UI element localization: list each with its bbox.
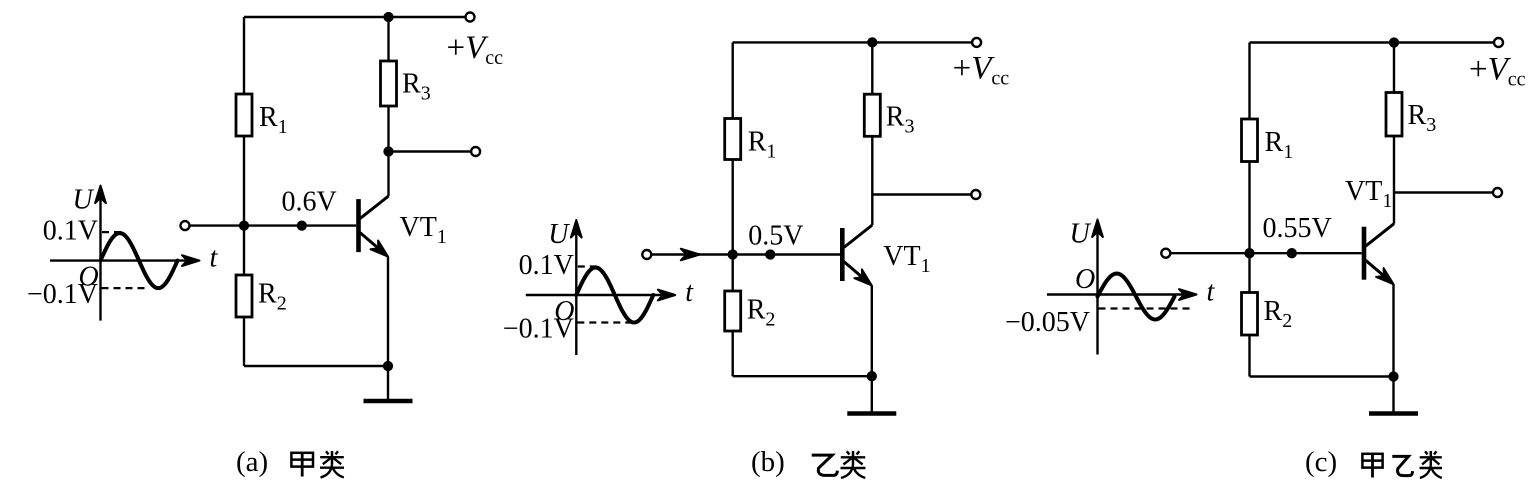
waveform (a) peak dashed line xyxy=(102,231,125,233)
circuit (a) base junction dot at divider xyxy=(239,220,249,230)
waveform (c) t-axis xyxy=(1047,293,1190,295)
caption (a) char 类 xyxy=(326,451,329,454)
svg-text:t: t xyxy=(210,243,219,274)
transistor (c) collector stroke xyxy=(1366,224,1395,247)
waveform (a) U-axis xyxy=(99,193,101,321)
circuit (a) output wire xyxy=(389,150,471,152)
circuit (a) input wire xyxy=(190,224,356,226)
circuit (b) input current arrow xyxy=(681,249,700,261)
circuit (a) output terminal xyxy=(471,147,480,156)
circuit (c) bottom rail wire xyxy=(1250,375,1394,377)
waveform (a) t-axis xyxy=(50,259,193,261)
svg-text:0.55V: 0.55V xyxy=(1263,213,1332,244)
circuit (c) emitter wire xyxy=(1392,284,1394,376)
resistor R2 ((c)) xyxy=(1242,293,1258,336)
resistor R2 ((b)) xyxy=(725,291,741,331)
waveform (c) sine wave xyxy=(1098,274,1175,320)
svg-text:(c): (c) xyxy=(1305,446,1337,478)
circuit (a) collector branch wire xyxy=(387,17,389,196)
svg-text:0.1V: 0.1V xyxy=(43,216,98,247)
circuit (c) base wire dot xyxy=(1287,248,1297,258)
svg-text:t: t xyxy=(685,277,694,308)
circuit (b) base wire dot xyxy=(765,249,775,259)
circuit (b) collector branch wire xyxy=(871,42,873,225)
waveform (b) t-axis xyxy=(526,294,669,296)
transistor (b) base bar xyxy=(840,228,845,281)
circuit (a) top rail to +Vcc terminal wire xyxy=(389,16,466,18)
circuit (b) left branch wire xyxy=(732,42,734,376)
circuit (b) top rail to +Vcc terminal wire xyxy=(872,41,972,43)
circuit (c) +Vcc terminal xyxy=(1494,38,1503,47)
circuit (a) base wire dot xyxy=(297,220,307,230)
resistor R3 ((a)) xyxy=(381,61,397,106)
circuit (a) top rail junction dot xyxy=(383,12,393,22)
circuit (c) top rail wire xyxy=(1250,41,1395,43)
waveform (a) trough dashed line xyxy=(102,287,148,289)
caption (b) char 乙 xyxy=(812,455,838,475)
waveform (a) sine wave xyxy=(101,233,178,288)
transistor (b) collector stroke xyxy=(844,225,873,248)
transistor (b) emitter stroke with arrow xyxy=(844,262,870,284)
svg-text:U: U xyxy=(548,219,570,250)
svg-text:0.5V: 0.5V xyxy=(748,220,803,251)
circuit (a) bottom rail wire xyxy=(244,365,388,367)
resistor R1 ((b)) xyxy=(725,119,741,160)
svg-text:0.6V: 0.6V xyxy=(282,186,337,217)
circuit (b) +Vcc terminal xyxy=(972,38,981,47)
waveform (b) sine wave xyxy=(576,268,653,323)
waveform (c) trough dashed line xyxy=(1099,307,1191,309)
circuit (a) emitter wire xyxy=(387,257,389,366)
caption (a) char 甲 xyxy=(291,453,313,467)
circuit (a) input terminal xyxy=(181,221,190,230)
resistor R1 ((c)) xyxy=(1242,119,1258,162)
circuit (b) output wire xyxy=(872,193,971,195)
svg-text:(a): (a) xyxy=(236,446,268,478)
circuit (b) bottom junction dot xyxy=(867,371,877,381)
circuit (a) left branch wire xyxy=(243,17,245,366)
svg-text:t: t xyxy=(1207,277,1216,308)
circuit (c) collector branch wire xyxy=(1393,43,1395,224)
transistor (c) emitter stroke with arrow xyxy=(1366,260,1392,282)
svg-text:(b): (b) xyxy=(751,446,785,478)
caption (c) char 甲 xyxy=(1362,454,1382,468)
resistor R1 ((a)) xyxy=(236,94,252,136)
waveform (c) U-axis xyxy=(1096,227,1098,355)
circuit (c) output terminal xyxy=(1493,188,1502,197)
svg-text:0.1V: 0.1V xyxy=(519,250,574,281)
circuit (b) bottom rail wire xyxy=(733,375,872,377)
svg-text:−0.1V: −0.1V xyxy=(27,279,98,310)
circuit (b) input terminal xyxy=(642,250,651,259)
ground ((a)) xyxy=(387,366,389,401)
transistor (a) collector stroke xyxy=(360,196,389,219)
caption (c) char 类 xyxy=(1425,451,1427,454)
circuit (b) emitter wire xyxy=(871,286,873,377)
circuit (b) top rail junction dot xyxy=(867,37,877,47)
circuit (a) top rail wire xyxy=(244,16,389,18)
circuit (c) left branch wire xyxy=(1248,43,1250,377)
circuit (a) bottom junction dot xyxy=(383,361,393,371)
resistor R3 ((c)) xyxy=(1386,93,1402,137)
circuit (a) +Vcc terminal xyxy=(466,13,475,22)
resistor R2 ((a)) xyxy=(236,275,252,317)
circuit (b) output terminal xyxy=(971,190,980,199)
waveform (b) trough dashed line xyxy=(577,321,634,323)
circuit (a) collector junction dot xyxy=(383,146,393,156)
svg-text:U: U xyxy=(73,185,95,216)
resistor R3 ((b)) xyxy=(864,94,880,136)
circuit (b) top rail wire xyxy=(733,41,873,43)
circuit (c) bottom junction dot xyxy=(1388,371,1398,381)
circuit (b) base junction dot at divider xyxy=(728,249,738,259)
transistor (a) base bar xyxy=(356,199,361,252)
ground ((c)) xyxy=(1392,377,1394,414)
transistor (a) emitter stroke with arrow xyxy=(360,233,386,255)
svg-text:−0.05V: −0.05V xyxy=(1005,307,1090,338)
svg-text:O: O xyxy=(1075,264,1095,295)
transistor (c) base bar xyxy=(1362,227,1367,280)
waveform (b) peak dashed line xyxy=(578,265,601,267)
circuit (c) top rail junction dot xyxy=(1389,37,1399,47)
svg-text:U: U xyxy=(1070,219,1092,250)
circuit (c) top rail to +Vcc terminal wire xyxy=(1394,41,1494,43)
waveform (b) U-axis xyxy=(575,227,577,355)
circuit (c) output wire xyxy=(1394,191,1493,193)
circuit (c) input terminal xyxy=(1161,249,1170,258)
caption (c) char 乙 xyxy=(1392,456,1412,475)
ground ((b)) xyxy=(871,376,873,413)
circuit (c) input wire xyxy=(1171,252,1362,254)
circuit (c) base junction dot at divider xyxy=(1244,248,1254,258)
svg-text:−0.1V: −0.1V xyxy=(503,314,574,345)
circuit (b) input wire xyxy=(652,253,840,255)
caption (b) char 类 xyxy=(847,451,850,454)
